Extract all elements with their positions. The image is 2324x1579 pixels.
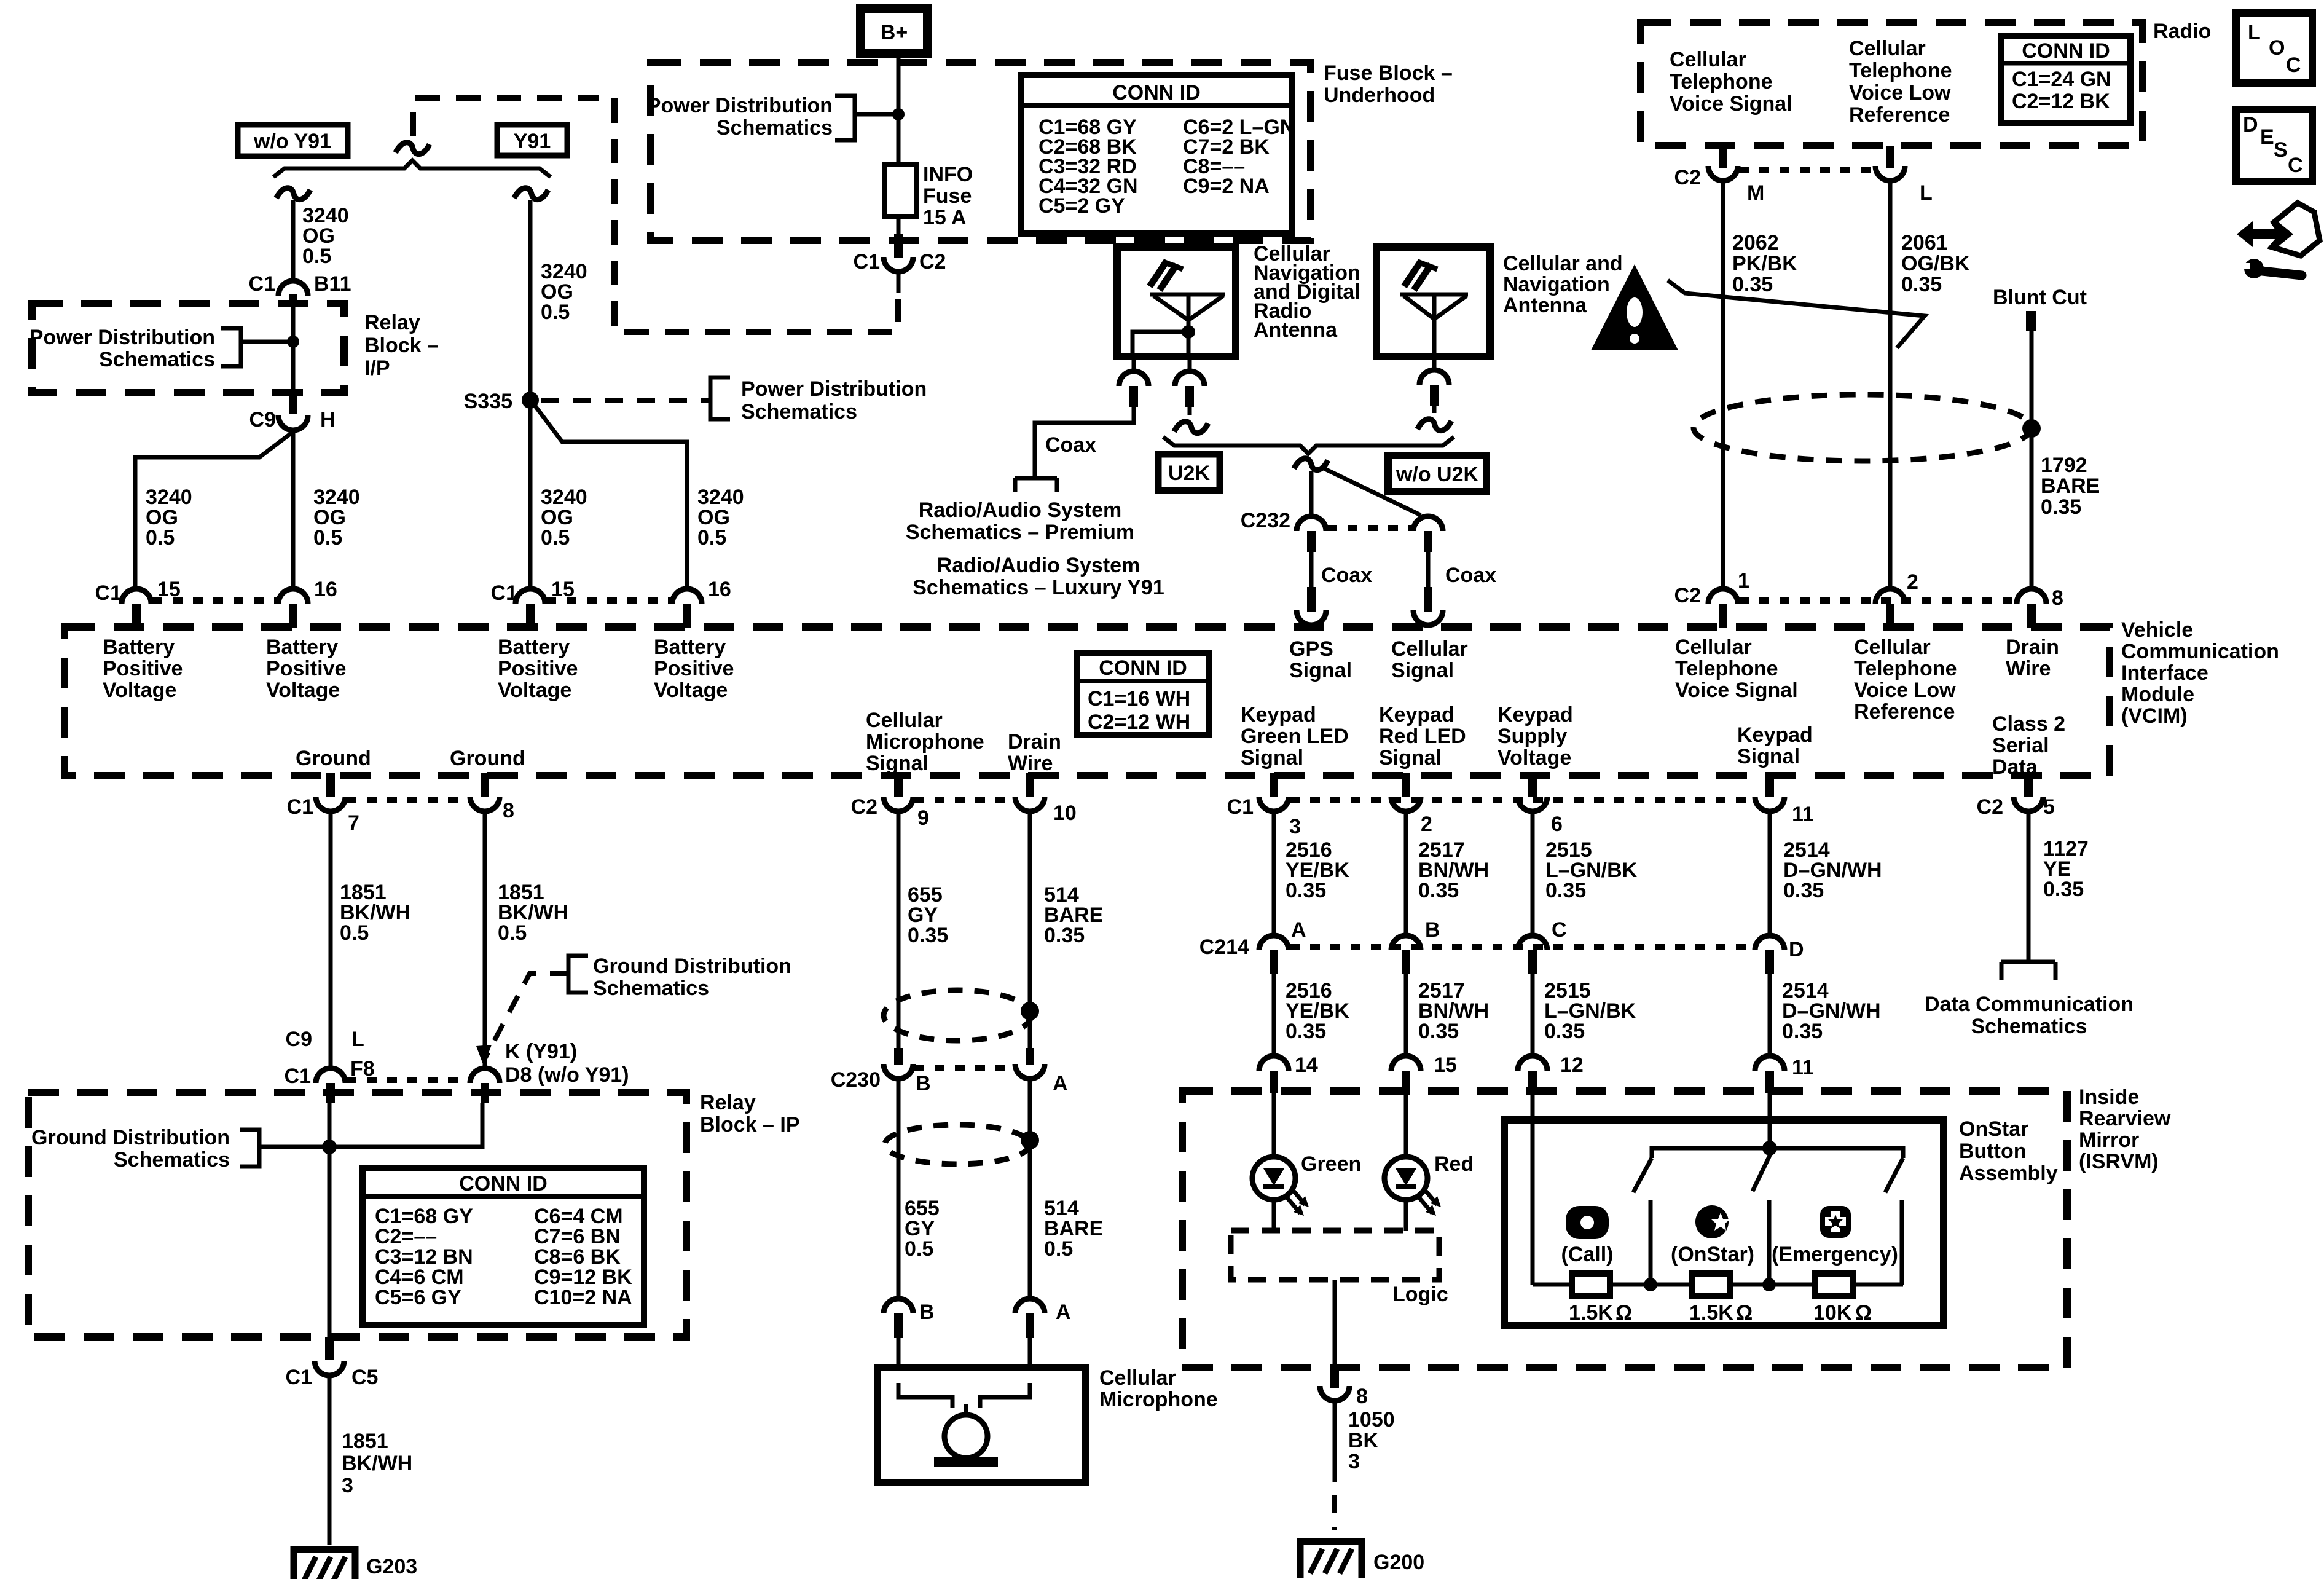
- svg-text:Communication: Communication: [2121, 640, 2279, 663]
- svg-text:12: 12: [1560, 1053, 1584, 1077]
- svg-text:A: A: [1053, 1072, 1068, 1095]
- svg-text:Inside: Inside: [2079, 1085, 2139, 1109]
- svg-text:0.5: 0.5: [313, 526, 342, 549]
- svg-text:K (Y91): K (Y91): [505, 1040, 577, 1063]
- label wire 1050 BK 3: [1348, 1408, 1395, 1473]
- wire 1851 BK/WH pin7: [329, 811, 333, 1069]
- svg-text:10: 10: [1053, 801, 1077, 825]
- svg-text:0.35: 0.35: [1732, 273, 1773, 296]
- svg-text:OG/BK: OG/BK: [1901, 252, 1970, 275]
- svg-text:C2: C2: [1674, 584, 1701, 607]
- wire break squiggle below brace: [1294, 455, 1328, 473]
- svg-text:C10=2 NA: C10=2 NA: [534, 1286, 632, 1309]
- svg-text:0.5: 0.5: [146, 526, 175, 549]
- svg-text:C1: C1: [854, 250, 880, 274]
- svg-text:C1: C1: [1227, 795, 1254, 819]
- connector C214 C: [1518, 918, 1567, 974]
- svg-text:Fuse: Fuse: [923, 184, 972, 208]
- connector A (mic): [1015, 1299, 1071, 1395]
- fuse block underhood dashed box: [651, 63, 1311, 240]
- component label Vehicle Communication Interface Module (VCIM): [2121, 618, 2279, 728]
- svg-text:8: 8: [503, 799, 514, 822]
- label wire 1851 BK/WH 0.5 (pin7): [340, 881, 410, 945]
- svg-text:0.35: 0.35: [1286, 879, 1326, 902]
- svg-text:Logic: Logic: [1392, 1283, 1448, 1306]
- connector pin 2 (keypad red): [1391, 773, 1432, 836]
- wire 514 BARE upper: [1028, 811, 1032, 1052]
- svg-text:Schematics – Luxury Y91: Schematics – Luxury Y91: [913, 576, 1164, 599]
- net label Cellular Telephone Voice Signal (VCIM): [1675, 636, 1798, 702]
- svg-text:Signal: Signal: [1737, 745, 1800, 768]
- svg-text:0.35: 0.35: [1044, 924, 1085, 947]
- svg-text:E: E: [2260, 125, 2274, 149]
- svg-text:C214: C214: [1199, 935, 1249, 959]
- wire break squiggle Y91 feed: [514, 185, 548, 202]
- connector C2 pin 5 (class 2): [1977, 773, 2055, 819]
- antenna1 output right (U2K path): [1174, 356, 1208, 436]
- switch onstar button: [1753, 1156, 1770, 1285]
- coax connector to radio (premium): [1015, 433, 1096, 492]
- radio dashed box: [1641, 23, 2143, 146]
- wire through relay block: [289, 305, 297, 414]
- label wire 655 GY 0.35: [908, 883, 948, 947]
- svg-text:Blunt Cut: Blunt Cut: [1993, 286, 2087, 309]
- brace selector U2K / w-o U2K: [1163, 437, 1454, 454]
- wire break squiggle above brace: [396, 140, 430, 157]
- ground G203: [291, 1546, 417, 1579]
- svg-text:C1: C1: [285, 1065, 311, 1088]
- connector C2 M (radio): [1674, 146, 1765, 205]
- svg-text:Data Communication: Data Communication: [1925, 993, 2134, 1016]
- wire 3240 OG Y91 to S335: [528, 200, 533, 589]
- connector pin 10 (mic drain): [1015, 773, 1077, 825]
- svg-text:1050: 1050: [1348, 1408, 1395, 1431]
- class 2 serial data stub connector: [2001, 958, 2055, 980]
- component label antenna 2: [1503, 252, 1623, 317]
- shield ellipse (radio pair): [1694, 395, 2032, 461]
- svg-text:Reference: Reference: [1849, 103, 1950, 127]
- antenna2 output (w/o U2K path): [1418, 356, 1451, 434]
- svg-text:H: H: [320, 408, 336, 431]
- label wire 2514 D-GN/WH 0.35 (lower): [1782, 979, 1881, 1043]
- component label Fuse Block - Underhood: [1324, 61, 1453, 107]
- icon Call: [1561, 1206, 1614, 1266]
- label 3240 OG 0.5 (wire 16): [313, 486, 360, 549]
- wire 2517 upper: [1404, 811, 1408, 937]
- connector C2 pin 1 (VCIM voice signal): [1674, 569, 1749, 628]
- svg-text:2: 2: [1907, 570, 1918, 594]
- svg-text:Cellular: Cellular: [1670, 48, 1746, 71]
- svg-text:A: A: [1291, 918, 1306, 942]
- svg-text:11: 11: [1792, 1056, 1814, 1079]
- wire logic to pin 8: [1330, 1280, 1339, 1388]
- connector pin 8 (VCIM drain wire): [2017, 586, 2063, 628]
- svg-text:Fuse Block –: Fuse Block –: [1324, 61, 1453, 85]
- svg-text:Schematics – Premium: Schematics – Premium: [906, 521, 1134, 544]
- svg-text:CONN ID: CONN ID: [2022, 39, 2110, 63]
- net label Keypad Supply Voltage: [1498, 703, 1573, 770]
- svg-text:B+: B+: [881, 21, 908, 44]
- svg-text:Ground: Ground: [450, 747, 525, 770]
- svg-text:M: M: [1747, 181, 1764, 205]
- cellular microphone box: [877, 1368, 1086, 1483]
- component label Inside Rearview Mirror (ISRVM): [2079, 1085, 2171, 1173]
- net label GPS Signal: [1289, 637, 1352, 682]
- svg-text:Keypad: Keypad: [1498, 703, 1573, 726]
- svg-text:8: 8: [1356, 1385, 1368, 1408]
- svg-text:0.5: 0.5: [302, 245, 331, 268]
- wire 2517 lower: [1404, 974, 1408, 1056]
- splice S335: [464, 390, 539, 413]
- svg-text:C9=2 NA: C9=2 NA: [1183, 175, 1270, 198]
- svg-text:Voltage: Voltage: [266, 679, 340, 702]
- coax wire GPS signal: [1297, 552, 1372, 625]
- svg-text:1.5K: 1.5K: [1689, 1301, 1733, 1325]
- svg-text:Signal: Signal: [1391, 659, 1454, 682]
- svg-text:0.35: 0.35: [2043, 878, 2084, 901]
- connector pin 6 (keypad supply): [1518, 773, 1563, 836]
- resistor 1.5K (call): [1569, 1274, 1632, 1325]
- svg-text:Voltage: Voltage: [654, 679, 728, 702]
- net label Class 2 Serial Data: [1992, 712, 2065, 779]
- svg-text:G200: G200: [1373, 1551, 1424, 1574]
- label wire 2514 D-GN/WH 0.35 (upper): [1783, 838, 1882, 902]
- svg-text:0.35: 0.35: [1783, 879, 1824, 902]
- label 3240 OG 0.5 (Y91 wire): [541, 260, 587, 324]
- svg-text:0.35: 0.35: [1286, 1020, 1326, 1043]
- power symbol B+: [860, 9, 927, 53]
- connector C1 pin 15 (Y91 battery): [491, 578, 575, 628]
- callout Power Distribution Schematics (relay block I/P): [29, 326, 299, 371]
- junction onstar switch: [1762, 1278, 1776, 1291]
- svg-text:8: 8: [2052, 586, 2063, 610]
- box label Y91: [497, 125, 567, 156]
- antenna1 output left (to radio coax): [1035, 356, 1148, 473]
- net label Cellular Telephone Voice Low Reference (VCIM): [1854, 636, 1957, 723]
- wire C9 H to battery feeds 15 and 16: [135, 430, 293, 589]
- svg-text:C5=2 GY: C5=2 GY: [1038, 194, 1125, 218]
- net label Battery Positive Voltage (pin 16): [266, 636, 346, 702]
- svg-text:0.5: 0.5: [1044, 1237, 1073, 1261]
- svg-text:C1: C1: [286, 1366, 312, 1389]
- connector C214 B: [1391, 918, 1440, 974]
- svg-text:0.35: 0.35: [1545, 879, 1586, 902]
- svg-text:Ω: Ω: [1855, 1301, 1872, 1325]
- svg-text:5: 5: [2043, 795, 2055, 819]
- svg-text:Positive: Positive: [103, 657, 183, 680]
- svg-text:Positive: Positive: [498, 657, 578, 680]
- box label U2K: [1158, 454, 1220, 490]
- svg-text:(ISRVM): (ISRVM): [2079, 1150, 2159, 1173]
- wire 1851 BK/WH 3 to G203: [328, 1376, 332, 1545]
- svg-text:Microphone: Microphone: [866, 730, 984, 754]
- net label Battery Positive Voltage (pin 15): [103, 636, 183, 702]
- svg-text:C2: C2: [1674, 166, 1701, 189]
- svg-text:Class 2: Class 2: [1992, 712, 2065, 736]
- wire break squiggle w/o Y91 branch: [277, 185, 310, 202]
- label wire 2515 L-GN/BK 0.35 (lower): [1544, 979, 1636, 1043]
- svg-text:Antenna: Antenna: [1254, 318, 1338, 342]
- relay block I/P dashed box: [32, 304, 344, 393]
- svg-text:2061: 2061: [1901, 231, 1948, 254]
- svg-text:Relay: Relay: [364, 311, 420, 334]
- connector C230 A: [1015, 1048, 1068, 1095]
- svg-text:Antenna: Antenna: [1503, 294, 1587, 317]
- wire brace to C232: [1311, 467, 1421, 516]
- brace selector w/o Y91 / Y91: [273, 160, 551, 177]
- svg-text:Telephone: Telephone: [1675, 657, 1778, 680]
- wire green LED: [1272, 1093, 1276, 1231]
- svg-text:Signal: Signal: [1289, 659, 1352, 682]
- label wire 1127 YE 0.35: [2043, 837, 2089, 901]
- connector pin 8 (logic output): [1320, 1385, 1368, 1408]
- svg-text:Schematics: Schematics: [1971, 1015, 2087, 1038]
- svg-text:2: 2: [1421, 813, 1432, 836]
- svg-text:B11: B11: [314, 272, 351, 296]
- svg-text:Schematics: Schematics: [99, 348, 215, 371]
- connector C1 pin 15 (VCIM battery): [95, 578, 181, 628]
- net label Keypad Red LED Signal: [1379, 703, 1466, 770]
- svg-text:Vehicle: Vehicle: [2121, 618, 2193, 642]
- svg-text:15: 15: [1434, 1053, 1457, 1077]
- callout Radio/Audio System Schematics - Premium: [906, 498, 1134, 544]
- svg-text:C1=16 WH: C1=16 WH: [1088, 687, 1190, 711]
- wire 2514 upper: [1768, 811, 1772, 937]
- svg-text:1792: 1792: [2041, 454, 2087, 477]
- connector L (radio): [1875, 146, 1933, 205]
- svg-text:Ω: Ω: [1736, 1301, 1753, 1325]
- wire red LED: [1404, 1093, 1408, 1231]
- svg-text:C1: C1: [491, 581, 517, 605]
- wire 2061 OG/BK: [1888, 181, 1893, 589]
- wire S335 branch to pin 16: [532, 402, 687, 589]
- svg-text:Radio: Radio: [2153, 20, 2211, 43]
- svg-text:3: 3: [1289, 815, 1301, 838]
- svg-text:C1: C1: [249, 272, 275, 296]
- svg-text:Signal: Signal: [1379, 746, 1442, 770]
- svg-text:Button: Button: [1959, 1140, 2027, 1163]
- svg-text:C2=12 WH: C2=12 WH: [1088, 711, 1190, 734]
- net label Keypad Green LED Signal: [1241, 703, 1349, 770]
- pin line 15-16: [152, 597, 277, 604]
- svg-text:Battery: Battery: [498, 636, 570, 659]
- pin line C214 A-B-C-D: [1290, 944, 1754, 950]
- svg-text:BK: BK: [1348, 1429, 1379, 1452]
- resistor 1.5K (onstar): [1689, 1274, 1753, 1325]
- svg-text:Keypad: Keypad: [1379, 703, 1454, 726]
- callout Power Distribution Schematics (fuse block): [647, 94, 905, 140]
- label wire 1851 BK/WH 0.5 (pin8): [498, 881, 568, 945]
- svg-text:OnStar: OnStar: [1959, 1117, 2028, 1141]
- svg-text:Interface: Interface: [2121, 661, 2208, 685]
- net label Battery Positive Voltage (Y91 pin 16): [654, 636, 734, 702]
- svg-text:Cellular and: Cellular and: [1503, 252, 1623, 275]
- ground G200: [1297, 1538, 1424, 1578]
- svg-text:0.35: 0.35: [1418, 879, 1459, 902]
- svg-text:0.35: 0.35: [908, 924, 948, 947]
- svg-text:(OnStar): (OnStar): [1671, 1243, 1754, 1266]
- label 3240 OG 0.5 (Y91 wire 16): [697, 486, 744, 549]
- svg-text:Block –: Block –: [364, 334, 439, 357]
- svg-text:Wire: Wire: [2006, 657, 2051, 680]
- pin line F8-D8: [347, 1077, 469, 1083]
- svg-text:10K: 10K: [1813, 1301, 1852, 1325]
- wire 655 GY upper: [897, 811, 901, 1052]
- svg-text:1.5K: 1.5K: [1569, 1301, 1613, 1325]
- logic dashed box: [1231, 1231, 1439, 1280]
- svg-text:Schematics: Schematics: [716, 116, 833, 140]
- svg-text:Keypad: Keypad: [1737, 723, 1813, 747]
- info box DESC: [2236, 109, 2312, 181]
- svg-text:Voltage: Voltage: [498, 679, 571, 702]
- shield ellipse (mic pair upper): [884, 990, 1031, 1041]
- svg-text:Battery: Battery: [654, 636, 726, 659]
- svg-text:Schematics: Schematics: [741, 400, 857, 423]
- svg-text:Drain: Drain: [2006, 636, 2059, 659]
- svg-text:1851: 1851: [342, 1430, 388, 1453]
- connector pin 12 (ISRVM): [1518, 1053, 1584, 1093]
- svg-text:Radio/Audio System: Radio/Audio System: [919, 498, 1122, 522]
- svg-text:Voice Low: Voice Low: [1849, 81, 1951, 104]
- svg-text:Cellular: Cellular: [1391, 637, 1468, 661]
- svg-text:Voice Low: Voice Low: [1854, 679, 1956, 702]
- svg-text:1: 1: [1738, 569, 1749, 593]
- svg-text:Power Distribution: Power Distribution: [29, 326, 215, 349]
- CONN ID table (VCIM): [1077, 653, 1209, 735]
- fuse INFO 15 A: [885, 163, 973, 229]
- svg-text:0.35: 0.35: [2041, 495, 2081, 519]
- svg-text:Underhood: Underhood: [1324, 84, 1435, 107]
- svg-text:15 A: 15 A: [923, 206, 967, 229]
- svg-text:BARE: BARE: [2041, 474, 2100, 498]
- wire 1851 BK/WH pin8: [483, 811, 487, 1069]
- wire 3240 OG to C1 B11: [291, 200, 296, 282]
- svg-text:Wire: Wire: [1008, 752, 1053, 775]
- callout Power Distribution Schematics (S335): [541, 377, 927, 423]
- pin line M-L: [1739, 167, 1874, 173]
- svg-text:GPS: GPS: [1289, 637, 1333, 661]
- svg-text:Coax: Coax: [1045, 433, 1096, 457]
- svg-text:Block – IP: Block – IP: [700, 1113, 800, 1136]
- connector pin 15 (ISRVM): [1391, 1053, 1457, 1093]
- connector C9 L / C1 F8: [285, 1028, 375, 1103]
- net label Drain Wire (mic): [1008, 730, 1061, 775]
- info box LOC: [2236, 13, 2312, 83]
- svg-text:Cellular: Cellular: [1854, 636, 1931, 659]
- svg-text:Telephone: Telephone: [1854, 657, 1957, 680]
- wire 2515 upper: [1531, 811, 1535, 937]
- svg-text:I/P: I/P: [364, 356, 390, 380]
- connector pin 2 (VCIM voice low): [1875, 570, 1918, 628]
- svg-text:Voltage: Voltage: [103, 679, 176, 702]
- antenna box Cellular and Navigation Antenna: [1376, 247, 1490, 356]
- wire keypad supply into button assembly: [1531, 1093, 1535, 1285]
- wire 514 BARE lower: [1028, 1079, 1032, 1299]
- svg-text:Telephone: Telephone: [1670, 70, 1773, 93]
- svg-text:INFO: INFO: [923, 163, 973, 186]
- CONN ID table (radio): [2001, 36, 2130, 123]
- wire 2514 lower: [1768, 974, 1772, 1056]
- resistor 10K (emergency): [1813, 1274, 1872, 1325]
- callout Radio/Audio System Schematics - Luxury Y91: [913, 554, 1164, 599]
- connector pin 11 (keypad signal): [1755, 773, 1814, 826]
- svg-text:0.35: 0.35: [1544, 1020, 1585, 1043]
- svg-text:Keypad: Keypad: [1241, 703, 1316, 726]
- net label Battery Positive Voltage (Y91 pin 15): [498, 636, 578, 702]
- svg-text:C1=24 GN: C1=24 GN: [2012, 68, 2111, 91]
- svg-text:C9: C9: [286, 1028, 312, 1051]
- switch call button: [1633, 1148, 1652, 1285]
- svg-text:0.5: 0.5: [541, 301, 570, 324]
- pin line C230 B-A: [914, 1065, 1014, 1071]
- svg-text:Positive: Positive: [654, 657, 734, 680]
- callout Data Communication Schematics: [1925, 993, 2134, 1038]
- svg-text:9: 9: [917, 806, 929, 830]
- svg-text:A: A: [1056, 1301, 1071, 1324]
- pin line 15-16 (Y91): [546, 597, 671, 604]
- wire 2515 lower: [1531, 974, 1535, 1056]
- label wire 3240 OG 0.5: [302, 204, 349, 268]
- connector pin 16 (Y91 battery): [672, 578, 731, 628]
- icon Emergency: [1772, 1206, 1898, 1266]
- svg-text:0.35: 0.35: [1782, 1020, 1823, 1043]
- svg-text:S: S: [2274, 138, 2288, 162]
- svg-text:Drain: Drain: [1008, 730, 1061, 754]
- net label Cellular Telephone Voice Low Reference (radio): [1849, 37, 1952, 127]
- svg-text:O: O: [2269, 36, 2285, 60]
- label wire 2062 PK/BK 0.35: [1732, 231, 1797, 296]
- svg-text:Cellular: Cellular: [866, 709, 943, 732]
- svg-text:C2=12 BK: C2=12 BK: [2012, 90, 2110, 113]
- svg-text:(VCIM): (VCIM): [2121, 704, 2188, 728]
- wire ground bus in relay block: [322, 1103, 482, 1340]
- switch emergency button: [1885, 1148, 1903, 1285]
- svg-text:B: B: [919, 1301, 935, 1324]
- svg-text:Cellular: Cellular: [1099, 1366, 1176, 1390]
- svg-text:C230: C230: [831, 1068, 881, 1092]
- svg-text:Signal: Signal: [1241, 746, 1303, 770]
- svg-text:C: C: [1552, 918, 1567, 942]
- svg-text:0.35: 0.35: [1418, 1020, 1459, 1043]
- connector C1 pin 3 (keypad green): [1227, 773, 1301, 838]
- callout Ground Distribution Schematics (K wire): [476, 955, 791, 1066]
- component label antenna 1: [1254, 242, 1360, 342]
- label wire 2517 BN/WH 0.35 (lower): [1418, 979, 1489, 1043]
- CONN ID table (relay block IP): [363, 1168, 644, 1325]
- svg-text:Schematics: Schematics: [593, 977, 709, 1000]
- label wire 2061 OG/BK 0.35: [1901, 231, 1970, 296]
- svg-text:3: 3: [1348, 1450, 1360, 1473]
- connector C214 D: [1755, 935, 1804, 974]
- svg-text:Assembly: Assembly: [1959, 1162, 2058, 1185]
- svg-text:Green LED: Green LED: [1241, 725, 1349, 748]
- svg-text:(Call): (Call): [1561, 1243, 1614, 1266]
- svg-text:C1: C1: [287, 795, 313, 819]
- svg-text:G203: G203: [366, 1555, 417, 1578]
- component label Cellular Microphone: [1099, 1366, 1218, 1411]
- svg-text:D: D: [1789, 938, 1804, 961]
- svg-text:Relay: Relay: [700, 1091, 756, 1114]
- connector pin 8 (ground): [470, 773, 514, 822]
- svg-text:Power Distribution: Power Distribution: [647, 94, 833, 117]
- blunt cut wire 1792 BARE: [1993, 286, 2087, 589]
- svg-text:C5=6 GY: C5=6 GY: [375, 1286, 461, 1309]
- svg-text:L: L: [1920, 181, 1933, 205]
- svg-text:Reference: Reference: [1854, 700, 1955, 723]
- svg-text:C: C: [2288, 154, 2303, 177]
- svg-text:C5: C5: [351, 1366, 378, 1389]
- connector pin 14 (ISRVM): [1259, 1053, 1318, 1093]
